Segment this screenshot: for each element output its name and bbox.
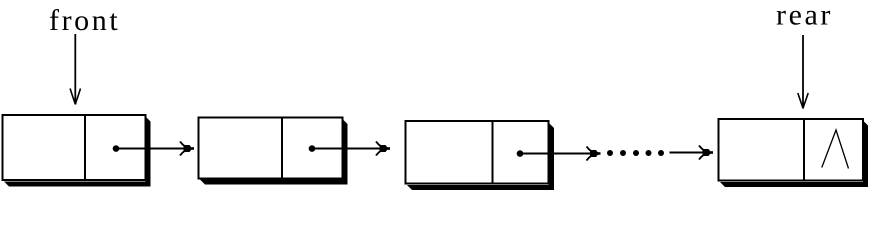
node 1 divider [84,115,86,180]
node 3 divider [492,121,494,184]
rear pointer arrow [798,35,808,109]
node 2 divider [281,118,283,179]
node 4 divider [803,119,805,181]
node 2 shadow [200,119,348,185]
ellipsis dots [607,150,664,156]
node 4 shadow [720,121,868,188]
link arrow node1 to node2 [113,142,194,156]
node 3 shadow [407,123,554,191]
node 1 shadow [4,117,151,187]
node 1 box [3,115,146,180]
null caret in node 4 [822,130,849,169]
link arrow dots to node4 [670,146,714,160]
node 4 box [719,119,864,181]
front pointer arrow [70,34,80,105]
svg-text:front: front [49,4,120,37]
link arrow node2 to node3 [309,142,390,156]
svg-text:rear: rear [776,0,833,32]
node 3 box [406,121,549,184]
node 2 box [199,118,343,179]
link arrow node3 to dots [517,147,601,161]
